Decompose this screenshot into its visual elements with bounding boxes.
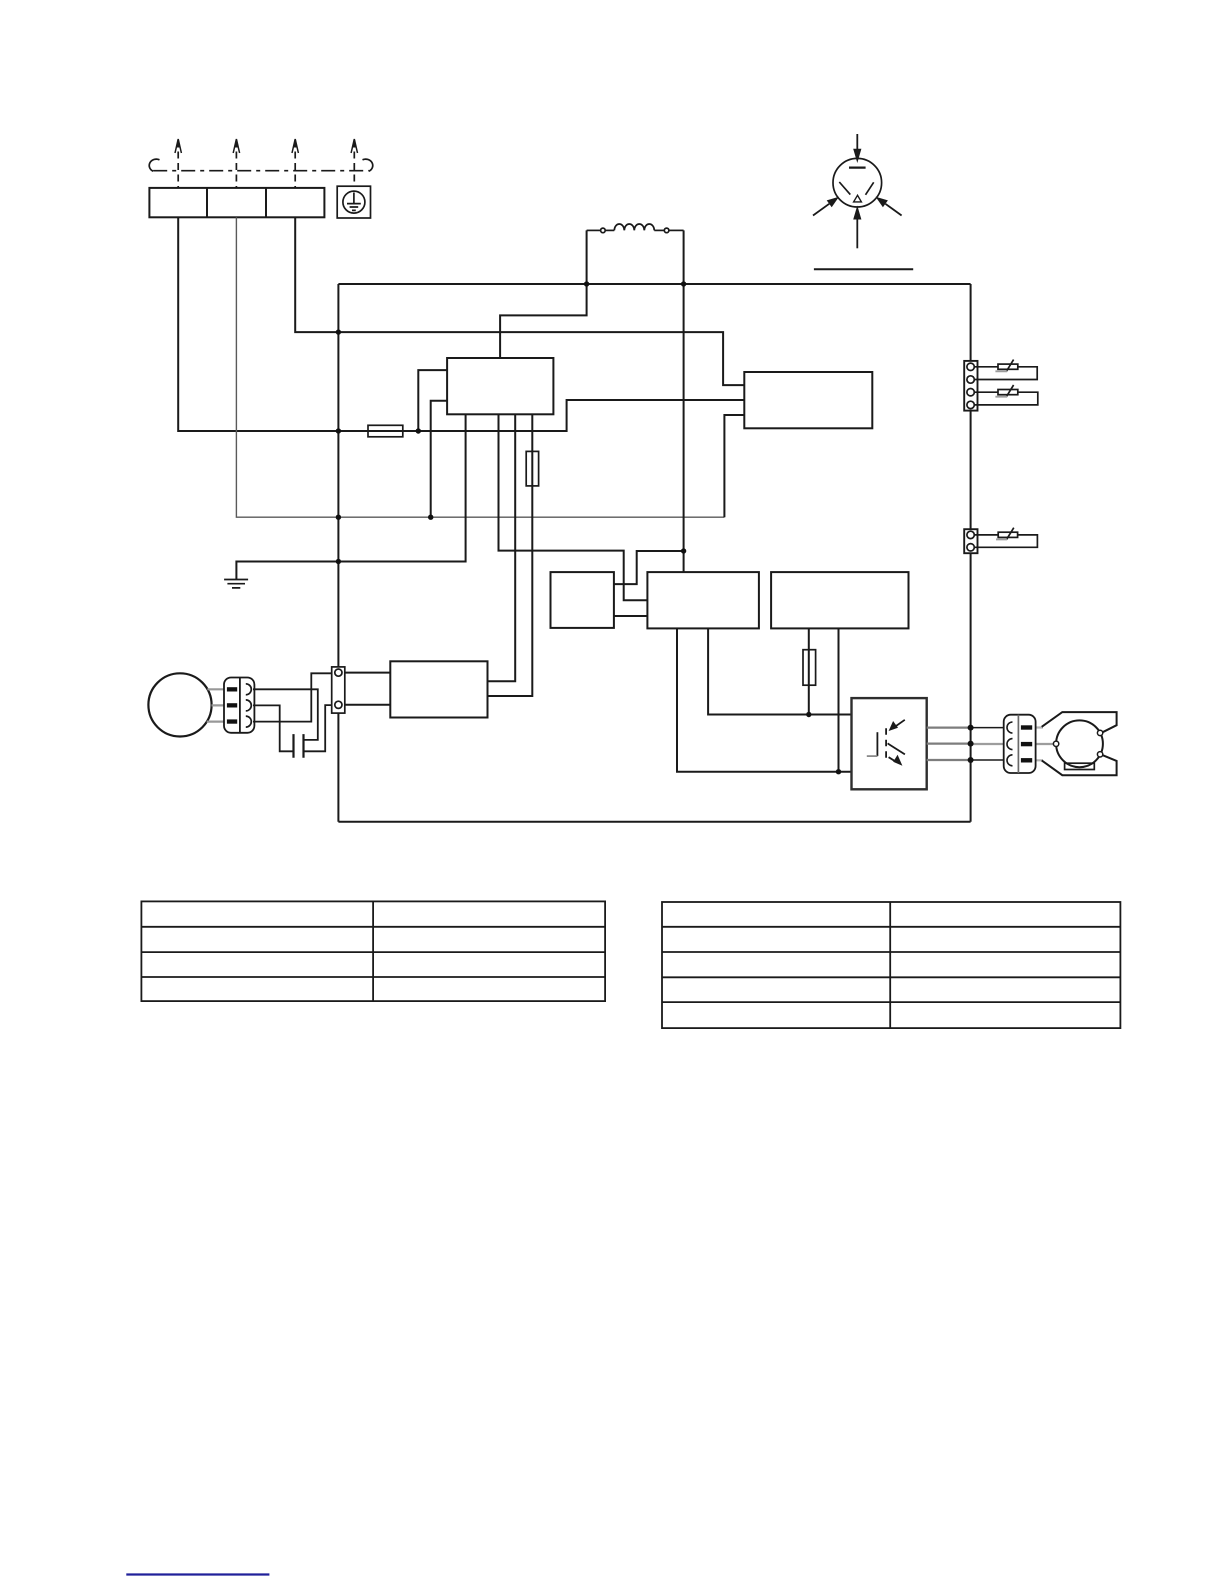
motor pin2 wire to capacitor left plate xyxy=(253,705,294,751)
wire A to B direct xyxy=(614,615,648,617)
compressor terminal circles xyxy=(1053,741,1058,746)
wire L1: terminal1 down to fuse line, right to corner, up, into right box xyxy=(178,217,744,431)
wire C bottom pin1 through resistor R2 xyxy=(808,628,810,714)
outer frame: left bus xyxy=(337,284,339,822)
left legend table xyxy=(141,901,605,1001)
main box bottom pin wire through resistor to filter box pin2 xyxy=(488,414,533,696)
motor pin3 wire to connector upper pin xyxy=(253,673,335,721)
box A xyxy=(551,572,614,628)
detail arrow top xyxy=(856,134,858,150)
detail arrow left xyxy=(813,204,829,216)
compressor terminal detail circle xyxy=(833,158,882,207)
main box bottom pin wire to filter box pin1 xyxy=(488,414,516,681)
ground symbol xyxy=(224,580,248,588)
resistor R2 xyxy=(803,650,816,686)
compressor base plate xyxy=(1065,763,1095,769)
motor lead wires xyxy=(207,689,227,721)
fuse F1 xyxy=(368,425,403,437)
relay internal arrow out xyxy=(889,757,896,762)
relay internal diagonal xyxy=(888,743,905,754)
main box left pin 2 wire xyxy=(431,401,447,517)
terminal block TB xyxy=(149,188,324,217)
outer frame: right bus xyxy=(970,284,972,822)
wire L2 (gray): terminal2 down, right along y=517, up at 724.4, into right box xyxy=(236,217,724,517)
compressor body outline lower xyxy=(1042,755,1117,775)
detail slash terminals xyxy=(839,182,873,195)
motor connector CN-M xyxy=(224,678,254,733)
supply arrow line 4 (earth) xyxy=(351,139,357,186)
compressor body outline upper xyxy=(1042,712,1117,732)
compressor motor circle xyxy=(1056,720,1103,767)
capacitor right plate wire to connector lower pin xyxy=(304,705,335,751)
junction dots xyxy=(336,281,974,774)
wire C bottom pin2 down to lower relay wire xyxy=(838,628,840,771)
box C xyxy=(771,572,908,628)
box B xyxy=(647,572,759,628)
thermistor connector CN2 (2-pin) xyxy=(964,529,977,553)
compressor connector CN-C xyxy=(1004,715,1036,773)
relay output wires to right bus xyxy=(927,728,971,760)
compressor stub wires gray xyxy=(1030,728,1043,761)
supply arrow line 3 xyxy=(292,139,298,188)
thermistor connector CN1 (4-pin) xyxy=(964,361,977,411)
main box left pin 1 wire xyxy=(418,370,447,431)
capacitor C1 plates xyxy=(294,734,304,758)
filter box xyxy=(390,661,487,717)
thermistor TH1 loop xyxy=(974,367,1037,380)
compressor middle feed wire gray xyxy=(971,743,1054,745)
node wire: B top node to box A right pin xyxy=(614,551,684,584)
detail underline xyxy=(814,268,913,270)
outer frame: top bus xyxy=(338,283,970,285)
earth terminal box xyxy=(337,186,370,218)
footer link line xyxy=(126,1573,269,1575)
wire L3: terminal3 down, right along y=332, down at 723.1, into right box xyxy=(295,217,744,385)
detail arrow bottom xyxy=(856,219,858,248)
supply arrow line 2 xyxy=(233,139,239,188)
detail small triangle xyxy=(854,195,862,202)
main control box U1 xyxy=(447,358,553,414)
wire B bottom pin2 to relay box upper pin xyxy=(708,628,851,714)
main box bottom pin wire to B left pin xyxy=(499,414,648,600)
supply arrow line 1 xyxy=(175,139,181,188)
right legend table xyxy=(662,902,1120,1028)
reactor left leg down to bus and into main box top xyxy=(500,230,586,358)
outer frame: bottom bus xyxy=(338,821,970,823)
reactor L coil xyxy=(587,224,684,233)
reactor right leg down to node, into box B top xyxy=(683,230,685,572)
motor M fan xyxy=(148,673,211,736)
filter box pins from connector xyxy=(345,673,391,705)
small connector CN on left bus xyxy=(332,667,345,713)
thermistor TH2 loop xyxy=(974,392,1038,405)
relay module box xyxy=(852,698,927,789)
thermistor TH3 loop xyxy=(974,535,1037,547)
relay internal contact L-shape xyxy=(876,732,878,756)
resistor R1 xyxy=(526,451,538,486)
right terminal box xyxy=(744,372,872,428)
supply cable dash-dot loop xyxy=(149,159,373,171)
wire B bottom pin1 to relay box lower pin xyxy=(677,628,852,771)
relay internal dashed bar xyxy=(885,728,887,759)
detail top terminal bar xyxy=(849,167,866,169)
relay internal arrow in xyxy=(893,720,905,728)
earth wire and chassis ground xyxy=(236,414,465,579)
motor pin1 wire to capacitor right plate xyxy=(253,689,318,740)
compressor feed wires thin xyxy=(971,728,1010,760)
detail arrow right xyxy=(885,204,901,216)
